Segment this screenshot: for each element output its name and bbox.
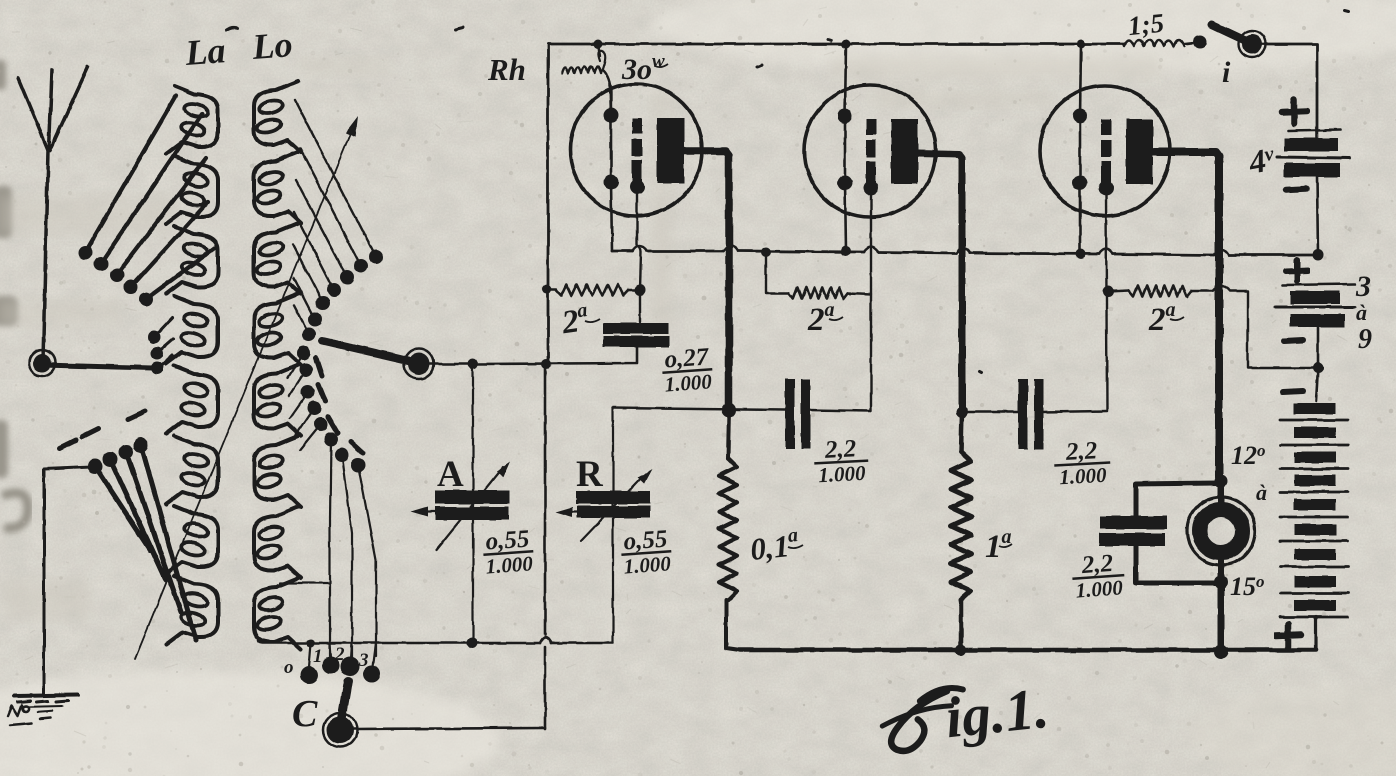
node La lower tap dots [88,459,103,474]
label value 2.2/1000 stage3 [1053,437,1112,490]
wire arm to A-node [430,363,473,366]
wire coupling line 3 [962,411,1107,412]
wire box left edge x548 [547,44,550,363]
node terminal studs 0-3 [300,666,318,684]
svg-text:1.000: 1.000 [818,461,867,487]
label value 2.2 phone [1071,549,1126,603]
node bus dot A [467,638,478,649]
svg-text:Rh: Rh [487,52,526,87]
node Lo tap dots lower [297,346,311,360]
wire bus hops [633,246,1229,256]
node grid3 node [1103,287,1114,298]
node y364 junctions [468,359,478,369]
wire coil tap horizontal [280,582,330,584]
phone headset 120-150 ohm [1187,497,1255,565]
margin scribble N deg [8,705,52,725]
battery B 150V [1316,368,1318,401]
wire La lower tap fan [95,445,196,640]
tube U3 plate [1126,119,1153,184]
tube U2 filament [844,115,847,184]
label plus B-batt [1276,624,1301,647]
switch i lever [1212,25,1246,41]
label minus A-batt [1286,189,1306,190]
stray ink marks [226,10,1349,372]
wire U1 filament bottom lead [611,182,612,251]
wire La mid taps [154,318,173,369]
svg-text:2: 2 [334,644,345,665]
switch i knob [1242,34,1262,54]
wire La lower dashes [60,411,145,448]
node plate1 blob [722,403,737,418]
wire U3 filament bottom lead [1079,183,1082,254]
wire La tap fan upper [85,96,176,252]
node Lo tap dots upper [369,250,383,264]
capacitor C-grid1 0.27 [639,290,641,322]
wire U3 grid lead [1106,195,1107,411]
tube U1 envelope [570,84,702,216]
wire C to riser [353,728,545,729]
wire U1 filament top lead [610,84,611,115]
label value 0.27/1000 [661,343,714,396]
battery C bias 3-9V [1283,284,1355,285]
wire leak3 to C battery [1213,286,1318,368]
tube U3 filament [1079,115,1082,184]
svg-text:2,2: 2,2 [1064,437,1098,466]
switch arm lever [322,341,408,361]
node bus-load2 [956,645,967,656]
wire U3 filament top lead [1080,44,1081,117]
label plus A-batt [1282,100,1307,124]
node bus dots [761,247,771,257]
wire U2 filament bottom lead [845,183,846,251]
wire bottom B+ bus [740,648,1316,653]
wire Lo lower dashes [316,358,363,453]
wire terminal lead 2 [342,455,352,658]
tube U2 grid [866,119,876,135]
node top rail dots [594,40,603,49]
svg-text:1;5: 1;5 [1126,8,1165,42]
svg-text:1.000: 1.000 [623,551,672,578]
svg-text:3: 3 [358,650,369,671]
tube U1 grid [632,118,642,134]
wire stud stubs [309,643,376,667]
node C- dot [1313,363,1324,374]
inductor Lo (tapped coil, right) [254,81,301,152]
svg-text:ig.1.: ig.1. [942,675,1051,750]
wire terminal lead 1 [330,439,331,656]
wire U1 grid lead [637,192,641,290]
wire squiggle to contact [1184,43,1193,44]
wire phone to bus [1218,583,1225,652]
svg-text:A: A [437,454,464,495]
wire arm line y364 [473,347,637,364]
wire U2 grid lead [870,194,872,411]
label plus C-batt [1286,260,1308,281]
superscript underline flourishes [585,64,1184,548]
label minus C-batt [1284,340,1303,341]
resistor Rh 30ohm rheostat [598,44,600,56]
wire U1 plate lead [684,151,729,406]
svg-text:o: o [284,657,294,678]
wire U2 filament top lead [845,44,846,116]
node grid1 node [635,285,646,296]
node bus-phone [1214,645,1228,659]
svg-text:1.000: 1.000 [1075,575,1124,602]
wire terminal lead 3 [358,465,376,656]
switch C lever [341,681,348,722]
svg-text:2,2: 2,2 [823,435,857,464]
wire filament bus [612,251,1318,255]
svg-text:i: i [1222,56,1231,89]
battery A 4V [1316,130,1319,139]
wire coupling line 2 [613,408,871,411]
wire U3 plate lead [1154,152,1219,477]
tube U1 plate [657,118,684,183]
svg-text:1: 1 [313,646,323,667]
label minus B-batt [1283,391,1303,392]
ground [14,695,78,696]
wire C riser x545 [544,364,547,729]
wire antenna mast [43,150,48,360]
svg-text:R: R [576,454,604,495]
capacitor C-coup3 2.2 [1018,379,1028,449]
svg-text:Lo: Lo [250,24,294,67]
tube U3 envelope [1040,86,1170,216]
node La tap dots upper [78,246,92,260]
svg-text:1.000: 1.000 [485,551,534,578]
bleed-through marks (reverse page) [0,60,28,528]
node plate2 node [956,406,968,418]
svg-text:à: à [1256,480,1267,505]
node phone bottom [1215,576,1228,589]
node phone top [1215,475,1228,488]
inductor La (tapped coil, left) [166,86,218,154]
switch arm knob [408,353,430,375]
tube U3 grid [1101,119,1111,135]
tube U1 filament [610,114,613,183]
resistor R-load2 1M [951,452,971,600]
svg-text:3: 3 [1355,270,1371,303]
node La mid tap dots [148,331,161,344]
wire hop over at x=545 [540,638,551,644]
capacitor R variable (reaction) [612,408,614,642]
wire Lo tap fan upper [295,100,376,257]
variometer arrow [135,122,355,659]
node antenna junction [33,354,51,372]
svg-text:2,2: 2,2 [1080,550,1114,579]
node bus small dot [307,639,315,647]
capacitor C-phone 2.2 [1136,483,1219,516]
resistor R-leak3 2M [1108,291,1129,292]
svg-text:C: C [292,693,318,735]
label Fig.1. [879,687,969,753]
tube U2 envelope [804,85,936,217]
wire U2 plate lead [918,153,962,409]
node A- bus dot [1313,250,1324,261]
svg-text:1.000: 1.000 [664,369,713,396]
svg-text:à: à [1356,300,1367,325]
wire tap bus [258,640,613,643]
label value 0.55 A [482,525,535,578]
capacitor A variable [472,364,474,643]
svg-text:9: 9 [1358,324,1372,355]
svg-text:La: La [183,30,227,73]
wire Lo lower tap links [288,353,321,450]
switch C knob [327,717,354,744]
label value 0.55 R [620,525,673,578]
svg-text:1.000: 1.000 [1059,463,1108,489]
node leak1 left [543,285,552,294]
switch i contact [1194,36,1207,49]
wire to ground [44,467,92,694]
resistor 1.5ohm [1124,40,1184,46]
resistor R-leak2 2M [766,252,789,293]
label value 2.2/1000 stage2 [813,435,870,488]
wire antenna to coil tap [42,365,152,368]
antenna [18,67,88,150]
tube U2 plate [891,119,918,184]
wire top A+ rail [548,43,1125,46]
resistor R-load1 0.1M [719,458,737,600]
resistor R-leak1 2M [548,288,556,290]
capacitor C-coup2 2.2 [785,379,795,449]
